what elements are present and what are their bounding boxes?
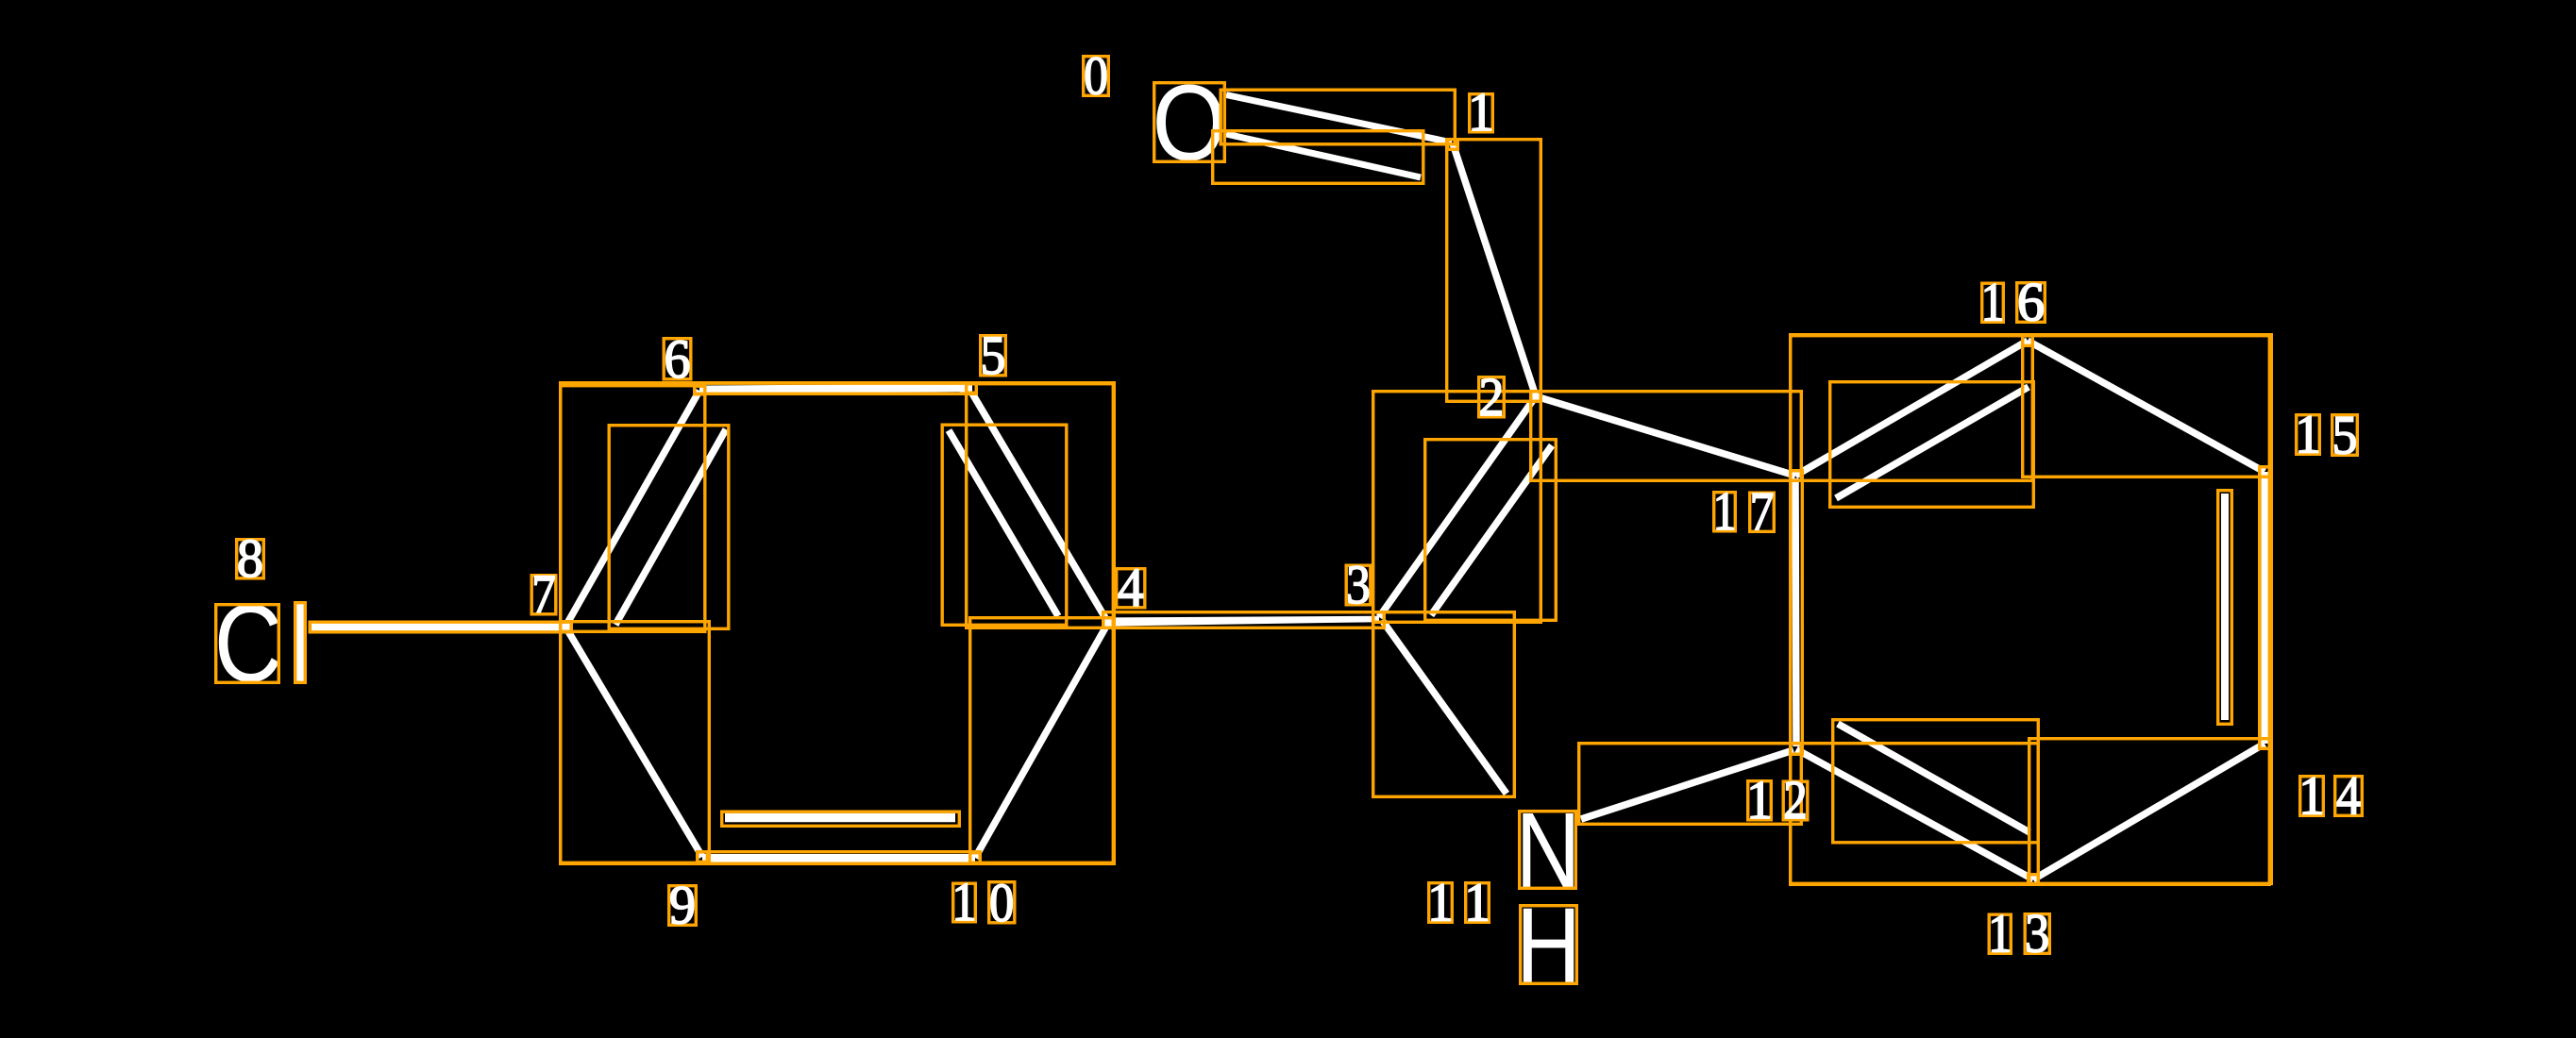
svg-text:1: 1 [1468, 81, 1494, 142]
atom C1 vertex box [1448, 140, 1458, 150]
svg-text:1: 1 [1980, 272, 2004, 333]
label atom 0 digit "0" [1084, 57, 1109, 96]
bond C14-C13 [2033, 744, 2265, 879]
label atom 12 digit "2" [1783, 781, 1808, 820]
bond C5=C4 main line [972, 393, 1108, 623]
bbox bond C10=C9 main [698, 852, 981, 864]
svg-text:1: 1 [1988, 903, 2012, 964]
bbox bond C9-C7 [561, 622, 710, 863]
bbox bond O0=C1 line A [1221, 90, 1455, 144]
bond N11-C12 [1581, 750, 1793, 819]
label atom 11 digit "1" [1429, 883, 1453, 923]
bbox bond C17=C16 inner [1830, 382, 2034, 508]
svg-text:H: H [1516, 886, 1581, 1005]
svg-text:0: 0 [1084, 45, 1108, 107]
bond C16-C15 [2028, 341, 2265, 472]
label atom 15 digit "1" [2297, 415, 2320, 455]
bbox bond C2=C3 main [1373, 392, 1541, 623]
label atom 6 digit "6" [664, 339, 691, 379]
svg-text:6: 6 [664, 328, 690, 390]
atom N11 'N' letter box [1520, 812, 1576, 889]
bbox bond C13=C12 main [1791, 744, 2039, 885]
label atom 5 digit "5" [981, 336, 1006, 376]
svg-text:4: 4 [1118, 557, 1144, 618]
bond C13=C12 main line [1796, 749, 2033, 879]
bbox bond C1-C2 [1447, 140, 1541, 402]
bond O0=C1 line A (outer) [1226, 95, 1452, 143]
atom O0 letter box [1154, 83, 1225, 162]
atom C17 vertex box [1791, 471, 1802, 481]
atom Cl8 'C' letter box [216, 605, 279, 683]
bond C17=C16 main line [1795, 341, 2028, 476]
label atom 12 digit "1" [1748, 781, 1772, 820]
bond C15=C14 inner line [2221, 494, 2229, 720]
bond C17=C16 inner line [1836, 387, 2029, 498]
bond C9-C7 [565, 627, 702, 857]
label atom 9 digit "9" [669, 886, 697, 926]
label atom 14 digit "4" [2335, 777, 2363, 816]
bbox bond C7=C6 inner [609, 426, 729, 629]
label atom 8 digit "8" [237, 540, 264, 578]
label atom 17 digit "1" [1714, 493, 1736, 531]
bond C7=C6 inner line [615, 429, 726, 625]
svg-text:O: O [1153, 63, 1227, 184]
bbox bond C5=C4 inner [942, 425, 1067, 625]
svg-text:1: 1 [2295, 404, 2321, 465]
bbox bond C14-C13 [2029, 739, 2270, 885]
bbox bond C4-C10 [970, 618, 1114, 863]
svg-text:1: 1 [1464, 872, 1490, 933]
svg-text:1: 1 [951, 871, 977, 932]
label atom 3 digit "3" [1346, 565, 1371, 605]
bbox bond N11-C12 [1579, 744, 1802, 825]
svg-text:2: 2 [1479, 366, 1505, 427]
bbox benzene ring C4-C5-C6-C7-C9-C10 [561, 383, 1115, 864]
bbox bond C16-C15 [2023, 336, 2270, 477]
bbox bond C2-C17 [1531, 392, 1802, 481]
bbox bond C3-C4 [1103, 612, 1385, 628]
svg-text:5: 5 [981, 325, 1006, 386]
bond C2=C3 inner line [1431, 445, 1552, 615]
svg-text:1: 1 [1746, 769, 1773, 830]
bond C1-C2 [1453, 143, 1536, 396]
svg-text:4: 4 [2336, 765, 2361, 827]
bond C10=C9 main line [702, 854, 975, 862]
bbox bond C7=C6 main [561, 386, 705, 632]
atom Cl8 'l' letter box [295, 603, 306, 683]
atom C4 vertex box [1103, 618, 1114, 628]
svg-text:7: 7 [531, 563, 556, 625]
bond C2-C17 [1536, 396, 1795, 476]
bond C7=C6 main line [565, 391, 699, 627]
atom C2 vertex box [1531, 392, 1541, 402]
bbox bond C10=C9 inner [722, 812, 960, 826]
atom Cl8 letter l (drawn as bar) [296, 603, 304, 684]
bbox bond C17=C16 main [1791, 336, 2033, 481]
bbox bond C12-C17 [1791, 471, 1803, 755]
bond C12-C17 [1795, 478, 1796, 746]
atom C13 vertex box [2029, 875, 2039, 885]
svg-text:0: 0 [989, 872, 1014, 933]
atom N11 'H' letter box [1521, 906, 1577, 984]
atom C16 vertex box [2023, 336, 2033, 346]
label atom 10 digit "1" [953, 883, 976, 922]
label atom 14 digit "1" [2300, 777, 2324, 816]
bond C10=C9 inner line [725, 813, 955, 823]
svg-text:3: 3 [2025, 903, 2049, 964]
bond C5=C4 inner line [949, 430, 1058, 616]
atom C15 vertex box [2260, 467, 2270, 477]
svg-text:6: 6 [2017, 272, 2045, 333]
svg-text:9: 9 [669, 875, 696, 936]
label atom 1 digit "1" [1470, 94, 1493, 132]
bbox bond C13=C12 inner [1833, 720, 2039, 843]
svg-text:C: C [214, 581, 283, 705]
bbox bond C15=C14 inner [2218, 491, 2232, 725]
bbox bond C5=C4 main [967, 384, 1114, 628]
atom C10 vertex box [970, 853, 981, 863]
label atom 10 digit "0" [989, 882, 1015, 923]
atom C7 vertex box [561, 622, 572, 632]
bbox bond O0=C1 line B [1213, 131, 1423, 184]
label atom 16 digit "1" [1982, 283, 2004, 322]
bond C6-C5 [699, 384, 972, 394]
atom C14 vertex box [2260, 739, 2270, 749]
atom C5 vertex box [967, 384, 977, 393]
label atom 11 digit "1" [1466, 883, 1490, 923]
atom C6 vertex box [695, 386, 705, 394]
bbox bond C7-Cl8 [310, 622, 571, 632]
atom C3 vertex box [1373, 612, 1385, 623]
label atom 13 digit "3" [2025, 914, 2049, 954]
bbox benzene ring C12-C13-C14-C15-C16-C17 [1791, 335, 2272, 884]
bbox bond C6-C5 [695, 383, 977, 393]
bond C3-C4 [1108, 616, 1379, 627]
svg-text:3: 3 [1346, 554, 1371, 615]
label atom 4 digit "4" [1117, 569, 1145, 608]
svg-text:5: 5 [2332, 405, 2358, 466]
bond C4-C10 [975, 623, 1108, 858]
svg-text:7: 7 [1750, 481, 1775, 543]
bond C13=C12 inner line [1838, 724, 2029, 832]
svg-text:1: 1 [1427, 872, 1454, 933]
label atom 2 digit "2" [1479, 377, 1505, 417]
bond C15=C14 main line [2262, 472, 2270, 744]
bond O0=C1 line B (inner) [1226, 134, 1421, 177]
atom C12 vertex box [1791, 744, 1802, 755]
svg-text:1: 1 [2298, 765, 2325, 827]
label atom 17 digit "7" [1750, 493, 1775, 531]
label atom 7 digit "7" [531, 576, 556, 614]
bond C3-N11 [1382, 620, 1507, 794]
label atom 13 digit "1" [1989, 914, 2011, 953]
bbox bond C15=C14 main [2260, 467, 2270, 749]
label atom 15 digit "5" [2332, 415, 2358, 456]
svg-text:2: 2 [1783, 769, 1808, 830]
bbox bond C3-N11 [1373, 612, 1515, 797]
label atom 16 digit "6" [2017, 283, 2046, 323]
svg-text:8: 8 [237, 527, 263, 589]
bbox bond C2=C3 inner [1425, 440, 1557, 621]
atom C9 vertex box [698, 852, 708, 862]
svg-text:1: 1 [1712, 480, 1736, 542]
bond C2=C3 main line [1379, 396, 1536, 617]
bond C7-Cl8 [311, 622, 569, 631]
